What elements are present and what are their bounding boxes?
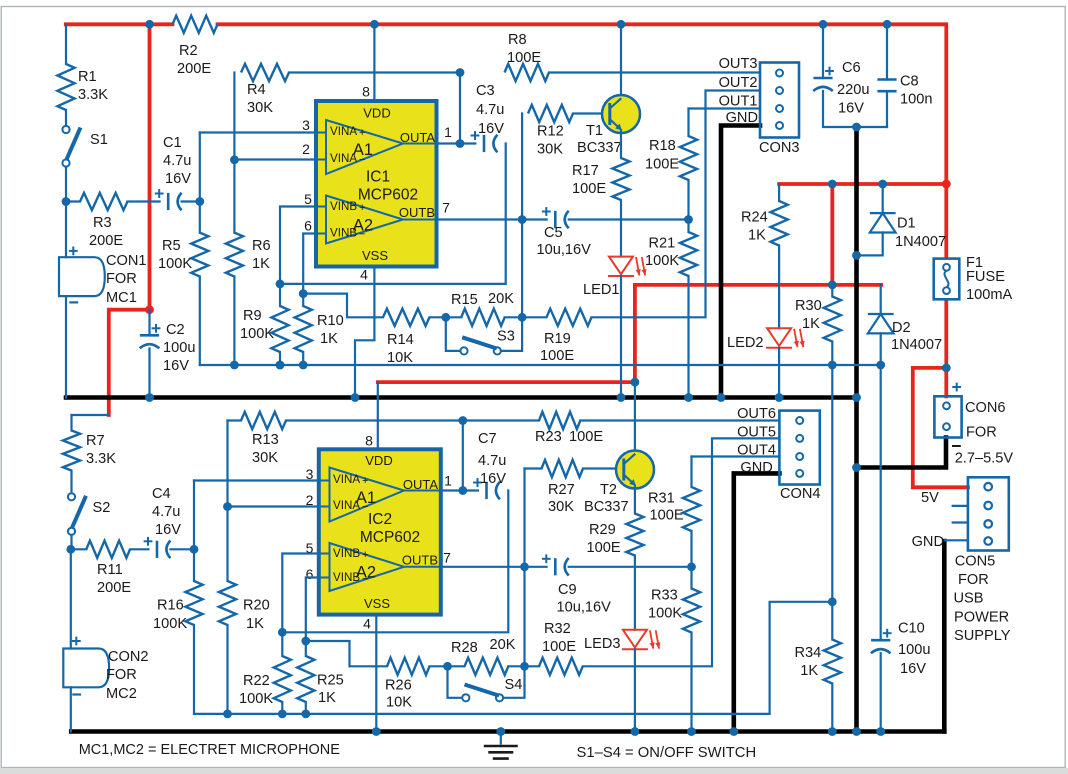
pin label VINB+ <box>330 200 357 213</box>
svg-text:+: + <box>359 127 365 139</box>
label R6 <box>252 238 271 254</box>
label R28 <box>451 640 478 656</box>
wire pin3 riser stage2 <box>193 481 195 582</box>
wire CON1 to ground rail <box>65 296 67 397</box>
wire CON5 gnd stub <box>945 539 968 541</box>
svg-text:100E: 100E <box>572 181 606 197</box>
wire pin5 line stage2 <box>282 554 319 633</box>
value 100E R31 <box>650 508 684 524</box>
resistor R34 <box>824 640 841 684</box>
svg-text:C7: C7 <box>478 431 497 447</box>
resistor R22 <box>274 656 291 702</box>
svg-text:R5: R5 <box>162 238 181 254</box>
node A1 input stage2 <box>190 545 199 554</box>
wire C2 top <box>148 310 150 336</box>
value 30K <box>537 142 563 158</box>
wire R24 to LED2 <box>778 246 780 329</box>
svg-text:100mA: 100mA <box>966 287 1013 303</box>
value 100E <box>645 157 679 173</box>
svg-text:200E: 200E <box>89 233 123 249</box>
wire R10 stubs <box>302 294 304 306</box>
label LED3 <box>584 636 621 652</box>
wire R27 left <box>525 467 542 469</box>
label R8 <box>508 32 527 48</box>
value 1K <box>320 331 338 347</box>
resistor R13 <box>241 412 286 429</box>
pin label VINA+ <box>330 125 357 138</box>
op-amp A2 triangle stage2 <box>319 543 441 591</box>
label S1 <box>90 132 108 148</box>
svg-text:−: − <box>362 501 368 513</box>
wire OUTA node drop <box>459 73 461 144</box>
wire fuse input <box>944 184 948 259</box>
svg-text:CON1: CON1 <box>106 253 147 269</box>
wire R31 bottom <box>690 531 692 567</box>
label R4 <box>247 82 266 98</box>
svg-text:100E: 100E <box>587 540 621 556</box>
svg-text:C6: C6 <box>842 60 861 76</box>
resistor R5 <box>191 233 208 277</box>
label R23 <box>535 429 562 445</box>
svg-text:GND: GND <box>912 534 944 550</box>
wire IC2 VSS to ground <box>375 615 377 732</box>
svg-text:MC1: MC1 <box>106 290 137 306</box>
svg-text:OUT4: OUT4 <box>737 443 776 459</box>
value 16V <box>165 171 191 187</box>
wire D1 to ground <box>857 233 883 256</box>
resistor R29 <box>626 514 643 556</box>
resistor R20 <box>219 581 236 625</box>
wire CON1 feed <box>65 202 67 258</box>
label R7 <box>86 433 105 449</box>
svg-text:R10: R10 <box>317 313 344 329</box>
label R31 <box>648 491 675 507</box>
svg-text:20K: 20K <box>490 637 516 653</box>
label R2 <box>179 43 198 59</box>
label R17 <box>572 163 599 179</box>
resistor R30 <box>824 297 841 342</box>
connector CON3 <box>760 63 799 138</box>
junction C2 ground <box>145 393 154 402</box>
value 100K R16 <box>153 616 187 632</box>
wire S3 left <box>446 317 461 351</box>
wire R20 to bias rail <box>226 625 228 714</box>
switch S3 <box>460 337 501 354</box>
junction D1 ground <box>852 251 861 260</box>
svg-text:30K: 30K <box>247 100 273 116</box>
pin sign <box>362 573 368 585</box>
svg-text:R34: R34 <box>795 645 822 661</box>
svg-text:4.7u: 4.7u <box>152 504 180 520</box>
value 16V C7 <box>480 471 506 487</box>
svg-text:OUTA: OUTA <box>403 477 438 492</box>
label IC1 <box>366 169 390 186</box>
wire pin3 line stage2 <box>194 479 319 481</box>
wire OUT3 line <box>549 71 760 73</box>
svg-text:4.7u: 4.7u <box>476 102 504 118</box>
pin number 8 IC2 <box>365 433 373 449</box>
svg-text:+: + <box>362 549 368 561</box>
junction LED2 ground <box>775 393 784 402</box>
wire pin6 node to R14 <box>303 294 383 318</box>
svg-text:R8: R8 <box>508 32 527 48</box>
wire LED2 to ground <box>778 348 780 398</box>
label C3 <box>476 83 495 99</box>
svg-text:FOR: FOR <box>966 424 997 440</box>
junction R9 bias <box>276 361 285 370</box>
wire IC2 VDD <box>377 382 379 449</box>
value 1K <box>748 228 766 244</box>
label A1 IC2 <box>356 489 376 507</box>
label C8 <box>900 74 919 90</box>
wire S4 left <box>448 666 463 698</box>
label S2 <box>93 500 111 516</box>
svg-text:5V: 5V <box>921 490 939 506</box>
label R20 <box>243 598 270 614</box>
svg-text:100n: 100n <box>900 92 932 108</box>
svg-text:R4: R4 <box>247 82 266 98</box>
svg-text:200E: 200E <box>97 580 131 596</box>
svg-text:1K: 1K <box>320 331 338 347</box>
svg-text:S3: S3 <box>497 329 515 345</box>
resistor R15 <box>461 309 505 326</box>
junction 5V split <box>942 364 951 373</box>
wire OUT1 line <box>689 107 761 109</box>
wire R20 top <box>226 507 228 582</box>
value 3.3K <box>78 87 108 103</box>
junction C8 rail <box>883 20 892 29</box>
value 16V <box>478 121 504 137</box>
wire +5V D1 row <box>779 182 946 186</box>
svg-text:S2: S2 <box>93 500 111 516</box>
wire +5V branch to C2 node <box>148 24 152 309</box>
label USB <box>954 591 984 607</box>
pin number 6 IC2 <box>306 566 314 582</box>
pin number 3 <box>302 117 310 133</box>
junction gnd vertical bottom <box>852 727 861 736</box>
value 100K <box>158 256 192 272</box>
svg-text:100u: 100u <box>163 340 195 356</box>
svg-text:100K: 100K <box>153 616 187 632</box>
svg-text:100K: 100K <box>648 606 682 622</box>
pin label OUTA IC2 <box>403 477 438 492</box>
svg-text:−: − <box>362 573 368 585</box>
label R3 <box>93 215 112 231</box>
node C6-C8 gnd <box>852 123 861 132</box>
svg-text:VSS: VSS <box>362 248 388 263</box>
connector CON4 <box>779 411 819 485</box>
svg-text:100E: 100E <box>650 508 684 524</box>
svg-text:VSS: VSS <box>364 596 390 611</box>
wire C10 to ground <box>880 653 882 731</box>
label C6 <box>842 60 861 76</box>
resistor R18 <box>680 136 697 180</box>
label IC2 <box>368 511 392 528</box>
junction CON3 gnd rail <box>717 393 726 402</box>
label CON4 <box>780 486 821 502</box>
label 5V <box>921 490 939 506</box>
svg-text:POWER: POWER <box>954 609 1009 625</box>
label R19 <box>544 331 571 347</box>
label R30 <box>795 298 822 314</box>
wire C6 bottom <box>823 91 887 127</box>
label FOR <box>106 271 137 287</box>
wire C3 out to pin5 node <box>280 144 506 284</box>
svg-text:100K: 100K <box>158 256 192 272</box>
label VDD <box>363 106 390 121</box>
value 100n <box>900 92 932 108</box>
junction LED1 ground <box>617 393 626 402</box>
svg-text:LED1: LED1 <box>583 282 620 298</box>
svg-text:R2: R2 <box>179 43 198 59</box>
svg-text:VDD: VDD <box>365 453 392 468</box>
junction VDD feed stage2 <box>631 378 640 387</box>
svg-text:R27: R27 <box>548 482 575 498</box>
pin number 3 IC2 <box>306 466 314 482</box>
resistor R8 <box>505 64 550 81</box>
value 100mA <box>966 287 1013 303</box>
junction ground symbol <box>496 727 505 736</box>
label CON3 <box>759 140 800 156</box>
junction T1 collector rail <box>617 20 626 29</box>
svg-text:OUT3: OUT3 <box>719 56 758 72</box>
wire ground stub <box>500 732 502 744</box>
capacitor C7 <box>473 478 500 499</box>
wire R31 top <box>690 457 692 488</box>
svg-text:C9: C9 <box>558 582 577 598</box>
connector CON3 pin 2 <box>776 87 783 94</box>
resistor R27 <box>542 460 584 477</box>
LED LED1 <box>608 257 647 276</box>
switch S1 <box>62 126 80 167</box>
svg-text:R7: R7 <box>86 433 105 449</box>
connector CON6 <box>934 396 961 437</box>
value 100K <box>240 326 274 342</box>
junction D1 top <box>878 180 887 189</box>
label T1 <box>586 123 603 139</box>
value 4.7u C7 <box>478 453 506 469</box>
wire R6 stubs <box>233 160 235 233</box>
label OUT4 <box>737 443 776 459</box>
label F1 <box>966 255 983 271</box>
label D2 <box>892 320 911 336</box>
resistor R31 <box>683 487 700 531</box>
label R24 <box>741 210 768 226</box>
junction R30 bias <box>828 361 837 370</box>
wire R34 to ground <box>831 684 833 732</box>
wire R33 stubs <box>690 567 692 589</box>
value 20K R28 <box>490 637 516 653</box>
svg-text:1K: 1K <box>252 256 270 272</box>
junction R34 ground <box>828 727 837 736</box>
svg-text:GND: GND <box>726 110 758 126</box>
svg-text:4.7u: 4.7u <box>478 453 506 469</box>
wire R25 to bias rail <box>305 702 307 714</box>
label R11 <box>97 562 123 578</box>
wire R12 to T1 base <box>573 112 610 114</box>
junction VSS2 ground <box>372 727 381 736</box>
connector CON5 <box>968 477 1009 550</box>
svg-text:2.7–5.5V: 2.7–5.5V <box>955 450 1014 466</box>
label CON6 plus <box>952 383 961 392</box>
svg-text:1N4007: 1N4007 <box>891 337 942 353</box>
svg-text:OUT5: OUT5 <box>737 425 776 441</box>
pin label VINA- sign <box>359 154 365 166</box>
wire node to R3 <box>66 200 80 202</box>
junction CON6 branch <box>852 463 861 472</box>
label OUT6 <box>737 406 776 422</box>
wire R29 to LED3 <box>634 556 636 630</box>
wire R23 left <box>463 419 539 421</box>
svg-text:LED3: LED3 <box>584 636 621 652</box>
svg-text:VINA: VINA <box>333 499 360 512</box>
node pin5 stage2 <box>278 628 287 637</box>
capacitor C6 <box>813 67 834 91</box>
label OUT2 <box>719 75 758 91</box>
wire pin6 node to R26 <box>306 641 387 666</box>
junction C6 rail <box>819 20 828 29</box>
wire C8 bottom <box>886 91 888 127</box>
svg-text:IC1: IC1 <box>366 169 390 186</box>
junction R20 bias <box>223 710 232 719</box>
node OUTA coupling stage2 <box>458 486 467 495</box>
node mic1 bias junction <box>62 197 71 206</box>
label 2.7-5.5V <box>955 450 1014 466</box>
label R9 <box>243 308 262 324</box>
label GND CON4 <box>740 460 772 476</box>
svg-text:OUTB: OUTB <box>402 553 438 568</box>
value 200E R2 <box>177 61 211 77</box>
value 200E <box>97 580 131 596</box>
resistor R12 <box>528 105 573 122</box>
wire LED3 to ground <box>634 649 636 731</box>
capacitor C10 <box>871 629 892 653</box>
value 16V <box>838 101 864 117</box>
svg-text:FOR: FOR <box>106 271 137 287</box>
label MCP602 <box>358 187 418 204</box>
node R15 right <box>518 313 527 322</box>
value 1K R20 <box>246 616 264 632</box>
svg-text:100E: 100E <box>569 429 603 445</box>
wire R10 to bias rail <box>302 352 304 365</box>
svg-text:R33: R33 <box>651 588 678 604</box>
wire C10 riser <box>880 365 882 640</box>
label R10 <box>317 313 344 329</box>
pin number 1 <box>444 124 452 140</box>
svg-text:R22: R22 <box>243 673 270 689</box>
label CON5 <box>955 554 996 570</box>
resistor R1 <box>57 64 74 110</box>
junction stage2 bias join <box>828 597 837 606</box>
value 220u <box>837 82 869 98</box>
wire C4 to R16 node <box>170 548 194 550</box>
wire R13 left riser <box>226 421 228 507</box>
svg-text:5: 5 <box>304 191 312 207</box>
label R1 <box>78 69 97 85</box>
label BC337 T2 <box>584 499 629 515</box>
svg-text:16V: 16V <box>480 471 506 487</box>
svg-text:VDD: VDD <box>363 106 390 121</box>
svg-text:IC2: IC2 <box>368 511 392 528</box>
fuse F1 <box>934 259 960 300</box>
label R32 <box>544 621 571 637</box>
wire C5 to R21 node <box>569 218 689 220</box>
value 20K <box>488 291 514 307</box>
svg-text:1K: 1K <box>800 663 818 679</box>
junction D2 bias <box>876 361 885 370</box>
svg-text:CON6: CON6 <box>965 400 1006 416</box>
wire R13 left stub <box>228 419 242 421</box>
pin label VINA- IC2 <box>333 499 360 512</box>
node mic2 junction <box>66 545 75 554</box>
label GND CON3 <box>726 110 758 126</box>
wire C1 to R5 node <box>182 200 200 202</box>
svg-text:R16: R16 <box>157 598 184 614</box>
svg-text:VINA: VINA <box>330 125 357 138</box>
wire R4 to OUTA node <box>289 71 460 73</box>
label C2 <box>166 322 185 338</box>
svg-text:10u,16V: 10u,16V <box>537 242 592 258</box>
connector CON3 pin 3 <box>776 105 783 112</box>
svg-text:OUT1: OUT1 <box>719 94 758 110</box>
wire R30 stubs <box>831 285 833 297</box>
label MC1 <box>106 290 137 306</box>
value 100K <box>645 253 679 269</box>
label POWER <box>954 609 1009 625</box>
label T2 <box>600 482 617 498</box>
svg-text:100E: 100E <box>645 157 679 173</box>
svg-text:30K: 30K <box>548 499 574 515</box>
op-amp A1 triangle <box>316 120 437 174</box>
wire R22 to bias rail <box>281 702 283 714</box>
connector CON3 pin 4 <box>776 122 783 129</box>
svg-text:MC1,MC2 = ELECTRET MICROPHONE: MC1,MC2 = ELECTRET MICROPHONE <box>79 742 341 758</box>
svg-text:OUT2: OUT2 <box>719 75 758 91</box>
capacitor C9 <box>542 554 569 575</box>
label FOR CON5 <box>958 572 989 588</box>
pin label VINA+ IC2 <box>333 473 360 486</box>
value 1N4007 <box>891 337 942 353</box>
svg-text:BC337: BC337 <box>577 140 622 156</box>
LED LED3 <box>622 630 661 649</box>
wire R11 to C4 <box>130 548 148 550</box>
op-amp A1 triangle stage2 <box>319 468 441 522</box>
label R5 <box>162 238 181 254</box>
label VDD IC2 <box>365 453 392 468</box>
wire LED1 to ground <box>620 276 622 398</box>
node A1 input <box>195 197 204 206</box>
wire R5 to bias rail <box>199 277 201 366</box>
pin number 4 IC2 <box>363 616 371 632</box>
wire R18 bottom <box>687 180 689 220</box>
svg-text:R30: R30 <box>795 298 822 314</box>
wire T2 collector <box>634 382 636 451</box>
wire stage2 bias rail <box>194 602 832 714</box>
wire 5V branch to CON5 <box>913 368 968 487</box>
wire fuse output to CON6 <box>944 299 948 396</box>
wire R15 stubs <box>446 316 461 318</box>
svg-text:16V: 16V <box>163 358 189 374</box>
wire pin6 line stage2 <box>306 578 319 642</box>
wire pin3 riser <box>199 133 201 233</box>
wire C9 to R33 node <box>569 566 692 568</box>
svg-text:OUTA: OUTA <box>400 130 435 145</box>
wire R1 to S1 <box>65 110 67 126</box>
svg-text:C1: C1 <box>163 135 182 151</box>
label MCP602 IC2 <box>360 529 420 546</box>
svg-text:100K: 100K <box>645 253 679 269</box>
svg-text:VINB: VINB <box>333 571 360 584</box>
